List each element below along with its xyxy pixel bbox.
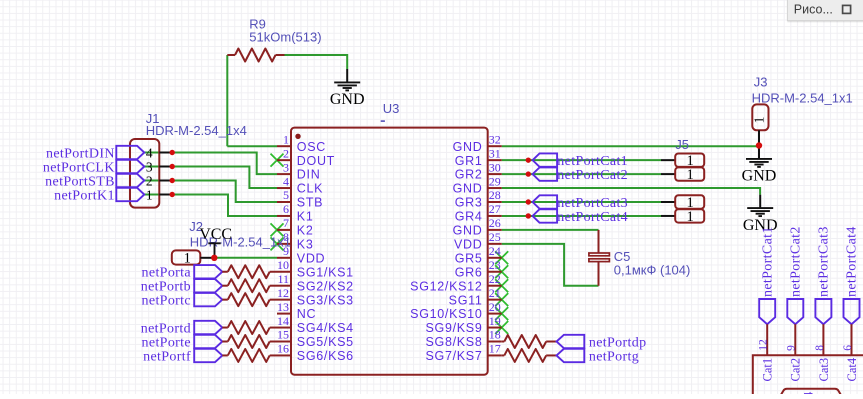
- svg-text:SG12/KS12: SG12/KS12: [410, 279, 482, 293]
- svg-text:5: 5: [283, 188, 289, 202]
- svg-text:netPorta: netPorta: [142, 266, 192, 281]
- svg-text:7: 7: [283, 216, 289, 230]
- svg-text:netPortf: netPortf: [143, 349, 191, 364]
- svg-text:DIN: DIN: [297, 168, 321, 182]
- svg-text:22: 22: [489, 272, 501, 286]
- svg-text:1: 1: [753, 117, 768, 124]
- svg-text:SG8/KS8: SG8/KS8: [425, 335, 482, 349]
- svg-text:Рисо...: Рисо...: [794, 3, 833, 17]
- svg-text:8: 8: [814, 345, 826, 351]
- svg-text:1: 1: [686, 167, 693, 183]
- svg-text:13: 13: [277, 300, 289, 314]
- svg-text:GND: GND: [453, 224, 483, 238]
- svg-text:28: 28: [489, 188, 501, 202]
- svg-text:SG7/KS7: SG7/KS7: [425, 349, 482, 363]
- svg-text:21: 21: [489, 286, 501, 300]
- svg-text:GR3: GR3: [455, 196, 483, 210]
- svg-text:GR1: GR1: [455, 154, 483, 168]
- svg-text:netPortCat4: netPortCat4: [557, 210, 628, 225]
- svg-text:Cat1: Cat1: [761, 358, 775, 382]
- svg-text:Cat3: Cat3: [817, 358, 831, 382]
- svg-text:31: 31: [489, 146, 501, 160]
- svg-text:17: 17: [489, 342, 501, 356]
- svg-text:18: 18: [489, 328, 501, 342]
- svg-text:OSC: OSC: [297, 140, 326, 154]
- svg-text:GR5: GR5: [455, 251, 483, 265]
- svg-text:SG6/KS6: SG6/KS6: [297, 349, 354, 363]
- svg-text:GR6: GR6: [455, 265, 483, 279]
- svg-text:GND: GND: [453, 182, 483, 196]
- svg-text:2: 2: [146, 173, 153, 188]
- svg-text:0,1мкФ (104): 0,1мкФ (104): [614, 263, 691, 278]
- svg-text:14: 14: [277, 314, 289, 328]
- svg-text:netPortCat1: netPortCat1: [557, 154, 628, 169]
- svg-text:SG10/KS10: SG10/KS10: [410, 307, 482, 321]
- svg-text:Cat4: Cat4: [845, 357, 859, 381]
- svg-text:netPortg: netPortg: [589, 349, 639, 364]
- svg-text:DOUT: DOUT: [297, 154, 335, 168]
- svg-text:12: 12: [758, 339, 770, 351]
- svg-text:30: 30: [489, 160, 501, 174]
- svg-text:SG2/KS2: SG2/KS2: [297, 279, 354, 293]
- svg-text:1: 1: [686, 209, 693, 225]
- svg-text:netPortCat4: netPortCat4: [845, 226, 860, 297]
- svg-text:netPortDIN: netPortDIN: [46, 146, 115, 161]
- svg-text:20: 20: [489, 300, 501, 314]
- svg-text:1: 1: [146, 187, 153, 202]
- svg-text:HDR-M-2.54_1x1: HDR-M-2.54_1x1: [752, 91, 853, 106]
- svg-text:netPortCat1: netPortCat1: [760, 226, 775, 297]
- svg-text:11: 11: [277, 272, 289, 286]
- svg-text:VDD: VDD: [297, 251, 326, 265]
- svg-text:SG1/KS1: SG1/KS1: [297, 265, 354, 279]
- svg-text:26: 26: [489, 216, 501, 230]
- svg-text:CLK: CLK: [297, 182, 323, 196]
- svg-text:GND: GND: [330, 91, 365, 108]
- svg-text:Cat2: Cat2: [789, 358, 803, 382]
- svg-text:12: 12: [277, 286, 289, 300]
- svg-text:SG3/KS3: SG3/KS3: [297, 293, 354, 307]
- svg-text:3: 3: [283, 160, 289, 174]
- svg-text:NC: NC: [297, 307, 316, 321]
- svg-text:J5: J5: [675, 137, 689, 152]
- svg-text:2: 2: [283, 146, 289, 160]
- svg-text:GND: GND: [742, 168, 777, 185]
- svg-text:6: 6: [283, 202, 289, 216]
- svg-text:24: 24: [489, 244, 501, 258]
- svg-text:3: 3: [146, 159, 153, 174]
- svg-text:SG5/KS5: SG5/KS5: [297, 335, 354, 349]
- svg-text:netPortd: netPortd: [141, 321, 191, 336]
- svg-text:29: 29: [489, 174, 501, 188]
- svg-text:6: 6: [842, 345, 854, 351]
- svg-text:netPorte: netPorte: [142, 335, 191, 350]
- svg-text:netPortCat3: netPortCat3: [557, 196, 628, 211]
- svg-text:4: 4: [283, 174, 289, 188]
- svg-text:1: 1: [184, 251, 191, 267]
- svg-text:GR4: GR4: [455, 210, 483, 224]
- svg-text:4: 4: [146, 145, 153, 160]
- svg-text:SG9/KS9: SG9/KS9: [425, 321, 482, 335]
- svg-text:netPortc: netPortc: [142, 293, 191, 308]
- svg-text:1: 1: [283, 132, 289, 146]
- svg-text:27: 27: [489, 202, 501, 216]
- svg-text:netPortSTB: netPortSTB: [45, 174, 115, 189]
- svg-text:netPortb: netPortb: [141, 280, 191, 295]
- svg-text:GND: GND: [453, 140, 483, 154]
- svg-text:netPortdp: netPortdp: [589, 335, 647, 350]
- svg-text:51kOm(513): 51kOm(513): [249, 30, 321, 45]
- svg-text:HDR-M-2.54_1x4: HDR-M-2.54_1x4: [146, 123, 247, 138]
- svg-text:netPortCat2: netPortCat2: [789, 226, 804, 297]
- svg-text:J3: J3: [754, 75, 768, 90]
- svg-text:9: 9: [786, 345, 798, 351]
- svg-text:U3: U3: [383, 101, 400, 116]
- svg-text:K1: K1: [297, 210, 314, 224]
- svg-text:VDD: VDD: [454, 237, 483, 251]
- svg-text:10: 10: [277, 258, 289, 272]
- svg-text:netPortK1: netPortK1: [54, 188, 115, 203]
- svg-text:K3: K3: [297, 237, 314, 251]
- svg-text:SG11: SG11: [449, 293, 483, 307]
- svg-text:STB: STB: [297, 196, 323, 210]
- svg-text:19: 19: [489, 314, 501, 328]
- svg-text:SG4/KS4: SG4/KS4: [297, 321, 354, 335]
- svg-text:netPortCLK: netPortCLK: [43, 160, 115, 175]
- svg-text:16: 16: [277, 342, 289, 356]
- svg-text:netPortCat3: netPortCat3: [817, 226, 832, 297]
- svg-text:23: 23: [489, 258, 501, 272]
- svg-text:15: 15: [277, 328, 289, 342]
- svg-text:25: 25: [489, 230, 501, 244]
- svg-text:netPortCat2: netPortCat2: [557, 168, 628, 183]
- svg-text:GR2: GR2: [455, 168, 483, 182]
- svg-text:32: 32: [489, 132, 501, 146]
- svg-text:K2: K2: [297, 224, 314, 238]
- svg-text:VCC: VCC: [199, 226, 232, 243]
